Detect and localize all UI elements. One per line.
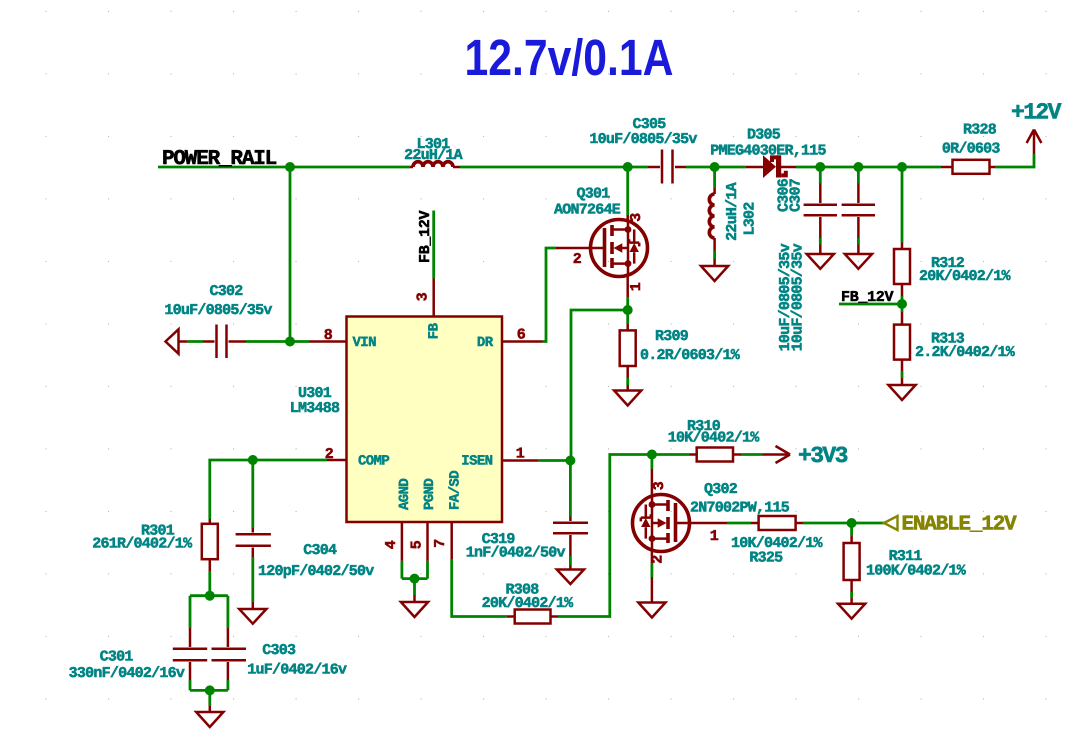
ground below C307 — [845, 254, 872, 269]
junction rail at Q301 drain — [623, 162, 633, 172]
wire rail drop to R312 — [901, 167, 904, 243]
power symbol +3V3 — [741, 443, 848, 469]
ground below R309 — [614, 391, 641, 406]
svg-text:Q301: Q301 — [577, 186, 611, 203]
svg-text:PGND: PGND — [422, 479, 438, 510]
transistor Q302 2N7002PW — [633, 495, 690, 552]
junction 3V3 node — [647, 450, 657, 460]
ground below C301 C303 — [196, 706, 223, 727]
svg-text:120pF/0402/50v: 120pF/0402/50v — [258, 563, 374, 580]
svg-text:C302: C302 — [209, 283, 243, 300]
capacitor C305 — [589, 116, 697, 184]
ground below C304 — [239, 609, 266, 624]
inductor L302 vertical — [709, 182, 758, 266]
svg-text:0R/0603: 0R/0603 — [942, 141, 1001, 158]
svg-text:DR: DR — [477, 335, 494, 351]
resistor R325 — [731, 516, 824, 567]
svg-text:2: 2 — [573, 251, 582, 268]
junction R301 bottom — [205, 591, 215, 601]
pin 5 U301 PGND — [409, 522, 428, 561]
svg-text:330nF/0402/16v: 330nF/0402/16v — [69, 665, 185, 682]
capacitor C301 — [69, 628, 208, 682]
junction FB_12V node — [897, 299, 907, 309]
pin 3 U301 FB — [415, 279, 434, 317]
junction ENABLE node — [847, 518, 857, 528]
svg-text:2N7002PW,115: 2N7002PW,115 — [690, 500, 790, 517]
wire rail drop to VIN — [289, 167, 292, 342]
wire gate to R325 — [727, 522, 751, 525]
svg-text:22uH/1A: 22uH/1A — [404, 147, 463, 164]
capacitor C304 — [236, 528, 375, 609]
ground below Q302 — [638, 603, 665, 618]
svg-text:C301: C301 — [100, 649, 134, 666]
wire R325 to ENABLE node — [803, 522, 884, 525]
wire parallel caps bottom bracket — [190, 680, 228, 706]
capacitor C302 — [164, 283, 309, 358]
junction rail at VIN drop — [285, 162, 295, 172]
svg-text:20K/0402/1%: 20K/0402/1% — [482, 595, 575, 612]
svg-text:Q302: Q302 — [704, 481, 738, 498]
wire source node to ISEN — [571, 310, 628, 461]
wire rail drop to C306 — [819, 167, 822, 184]
ground below R311 — [838, 604, 865, 619]
svg-text:22uH/1A: 22uH/1A — [724, 182, 741, 241]
global label ENABLE_12V — [884, 514, 1017, 537]
svg-text:3: 3 — [628, 213, 645, 222]
ground below C319 — [557, 570, 584, 585]
svg-text:C307: C307 — [788, 179, 805, 212]
inductor L301 — [404, 136, 463, 167]
svg-text:261R/0402/1%: 261R/0402/1% — [92, 536, 193, 553]
svg-text:COMP: COMP — [358, 454, 389, 470]
svg-text:PMEG4030ER,115: PMEG4030ER,115 — [710, 143, 826, 160]
junction caps bottom — [205, 685, 215, 695]
junction rail at C307 — [853, 162, 863, 172]
svg-text:POWER_RAIL: POWER_RAIL — [162, 148, 277, 171]
svg-text:+3V3: +3V3 — [798, 443, 848, 469]
resistor R301 — [92, 519, 218, 596]
wire POWER_RAIL horizontal rail — [158, 154, 1034, 167]
pin 3 Q302 — [651, 455, 668, 498]
svg-text:0.2R/0603/1%: 0.2R/0603/1% — [640, 347, 741, 364]
svg-text:D305: D305 — [747, 127, 781, 144]
wire parallel caps top bracket — [190, 596, 228, 628]
svg-text:ISEN: ISEN — [461, 454, 492, 470]
svg-text:AGND: AGND — [397, 479, 413, 510]
capacitor C307 — [788, 179, 876, 351]
diode D305 PMEG4030ER — [710, 127, 826, 179]
wire FA/SD to R308 — [452, 559, 507, 617]
svg-text:10uF/0805/35v: 10uF/0805/35v — [164, 302, 272, 319]
resistor R313 — [894, 304, 1016, 385]
svg-text:1: 1 — [628, 282, 645, 291]
svg-text:VIN: VIN — [353, 335, 377, 351]
wire rail drop to L302 — [713, 167, 716, 188]
wire R308 to 3V3 node — [558, 455, 652, 617]
pin 4 U301 AGND — [383, 522, 402, 561]
svg-text:6: 6 — [517, 327, 526, 344]
junction AGND PGND — [410, 574, 420, 584]
junction rail at L302 — [710, 162, 720, 172]
ground arrow left of C302 — [166, 329, 179, 353]
wire COMP net — [210, 460, 327, 519]
wire Q301 source to R309 — [626, 297, 629, 310]
resistor R308 — [482, 582, 575, 624]
junction COMP node — [248, 455, 258, 465]
wire DR to Q301 gate — [543, 248, 557, 342]
resistor R309 — [620, 310, 741, 391]
svg-text:20K/0402/1%: 20K/0402/1% — [919, 268, 1012, 285]
svg-text:FB_12V: FB_12V — [417, 210, 434, 263]
wire 3V3 row — [652, 453, 690, 456]
svg-text:FB: FB — [427, 322, 443, 339]
capacitor C306 — [776, 178, 838, 351]
svg-text:3: 3 — [651, 481, 668, 490]
svg-text:AON7264E: AON7264E — [554, 202, 621, 219]
svg-text:FB_12V: FB_12V — [841, 289, 894, 306]
junction rail at R312 — [897, 162, 907, 172]
wire COMP to C304 — [251, 460, 254, 528]
svg-text:L302: L302 — [741, 202, 758, 236]
svg-text:C303: C303 — [262, 642, 296, 659]
pin 8 U301 — [309, 327, 347, 344]
svg-text:10uF/0805/35v: 10uF/0805/35v — [589, 131, 697, 148]
svg-text:R328: R328 — [963, 122, 997, 139]
resistor R310 — [668, 418, 761, 462]
svg-text:1nF/0402/50v: 1nF/0402/50v — [466, 545, 566, 562]
svg-text:ENABLE_12V: ENABLE_12V — [902, 514, 1018, 537]
svg-text:7: 7 — [432, 539, 449, 548]
junction ISEN node — [565, 456, 575, 466]
ground below AGND PGND — [401, 595, 428, 617]
ground below C306 — [807, 254, 834, 269]
junction rail at C306 — [815, 162, 825, 172]
pin 2 U301 COMP — [325, 446, 347, 463]
transistor Q301 AON7264E — [554, 186, 648, 277]
svg-text:1: 1 — [710, 528, 719, 545]
wire ISEN net — [539, 461, 571, 517]
svg-text:10uF/0805/35v: 10uF/0805/35v — [790, 243, 807, 351]
pin 1 Q302 gate — [676, 523, 728, 545]
wire rail drop to Q301 drain — [626, 167, 629, 215]
svg-text:10K/0402/1%: 10K/0402/1% — [668, 430, 761, 447]
capacitor C303 — [212, 628, 347, 680]
svg-text:5: 5 — [409, 540, 426, 549]
pin 1 Q301 — [628, 274, 645, 297]
label FB_12V right — [839, 289, 902, 306]
svg-text:100K/0402/1%: 100K/0402/1% — [866, 563, 967, 580]
capacitor C319 — [466, 517, 588, 570]
IC U301 LM3488 — [290, 317, 502, 523]
svg-text:LM3488: LM3488 — [290, 400, 340, 417]
wire rail drop to C307 — [857, 167, 860, 184]
svg-text:12.7v/0.1A: 12.7v/0.1A — [465, 29, 674, 86]
wire FB net — [432, 211, 435, 279]
pin 3 Q301 — [628, 213, 645, 222]
svg-text:R325: R325 — [749, 550, 783, 567]
resistor R312 — [894, 243, 1012, 305]
pin 2 Q301 gate — [556, 248, 605, 268]
wire AGND PGND join — [402, 561, 428, 595]
svg-text:1uF/0402/16v: 1uF/0402/16v — [247, 662, 347, 679]
svg-text:4: 4 — [383, 540, 400, 549]
junction Q301 source node — [623, 305, 633, 315]
svg-text:+12V: +12V — [1011, 100, 1062, 126]
pin 6 U301 DR — [502, 327, 543, 344]
svg-text:R309: R309 — [655, 328, 689, 345]
svg-text:1: 1 — [516, 446, 525, 463]
ground below L302 — [701, 266, 728, 281]
pin 2 Q302 — [650, 549, 667, 603]
svg-text:FA/SD: FA/SD — [448, 471, 464, 510]
svg-text:8: 8 — [324, 327, 333, 344]
ground below R313 — [888, 385, 915, 400]
svg-text:2.2K/0402/1%: 2.2K/0402/1% — [915, 344, 1016, 361]
svg-text:3: 3 — [415, 292, 432, 301]
resistor R328 — [941, 122, 1000, 174]
svg-text:C304: C304 — [303, 542, 337, 559]
pin 1 U301 ISEN — [502, 446, 539, 463]
resistor R311 — [844, 523, 967, 604]
junction VIN node — [285, 337, 295, 347]
pin 7 U301 FA/SD — [432, 522, 452, 559]
svg-text:2: 2 — [650, 555, 667, 564]
power symbol +12V — [1011, 100, 1062, 155]
